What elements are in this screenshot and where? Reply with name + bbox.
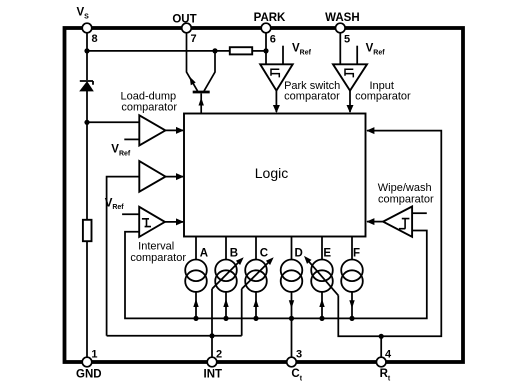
svg-text:F: F: [353, 248, 360, 260]
transistor Q1 output: [187, 31, 216, 114]
wire INT horizontal net: [107, 335, 242, 337]
wire pin 6 riser: [265, 31, 267, 64]
current source A: [185, 237, 207, 322]
svg-text:comparator: comparator: [130, 252, 186, 264]
wire V_S riser upper (pin 8 to zener): [86, 31, 88, 80]
junction dot PARK node: [263, 48, 268, 53]
park switch comparator U5: [260, 46, 293, 113]
wire zener to resistor: [86, 91, 88, 220]
junction dot V_S rail: [84, 48, 89, 53]
svg-text:GND: GND: [76, 368, 102, 380]
svg-text:2: 2: [216, 349, 222, 361]
svg-text:comparator: comparator: [284, 91, 340, 103]
wire C_t sense net (interval input, bus, wipe/wash input): [125, 231, 427, 319]
svg-text:1: 1: [91, 349, 97, 361]
svg-text:Wipe/wash: Wipe/wash: [378, 182, 432, 194]
svg-text:3: 3: [296, 349, 302, 361]
current source F: [341, 237, 363, 322]
svg-text:6: 6: [270, 34, 276, 46]
wire pin 5 riser: [339, 31, 341, 64]
pin 6: [261, 23, 271, 33]
outer package border: [65, 28, 464, 362]
wire pin 4 riser: [380, 336, 382, 358]
svg-text:Logic: Logic: [255, 165, 288, 181]
svg-text:5: 5: [344, 34, 350, 46]
pin 2: [207, 357, 217, 367]
interval comparator U4: [122, 207, 184, 237]
junction dot load-dump tap: [84, 120, 89, 125]
svg-text:A: A: [200, 248, 208, 260]
arrow feedback into logic: [366, 127, 374, 134]
current source C (variable): [242, 237, 274, 336]
wire resistor to pin 1 GND: [86, 241, 88, 358]
input comparator U6: [333, 46, 367, 113]
comparator U3 (middle): [107, 161, 184, 336]
junction dot transistor branch: [212, 48, 217, 53]
svg-text:Interval: Interval: [138, 241, 174, 253]
svg-text:C: C: [260, 248, 268, 260]
pin 8: [82, 23, 92, 33]
current source E (variable): [304, 237, 338, 322]
resistor R (vertical, V_S chain): [83, 220, 92, 241]
svg-text:INT: INT: [204, 368, 223, 380]
wire resistor to PARK node: [252, 50, 266, 52]
wipe/wash comparator U7: [366, 207, 426, 237]
svg-text:comparator: comparator: [378, 194, 434, 206]
wire feedback / R_t net: [338, 131, 441, 337]
svg-text:WASH: WASH: [325, 12, 360, 24]
svg-text:OUT: OUT: [172, 13, 196, 25]
wire V_S rail y=50.9 to pull-up resistor: [87, 50, 230, 52]
svg-text:4: 4: [385, 349, 392, 361]
pin 4: [376, 357, 386, 367]
current source B (variable): [212, 237, 244, 359]
current source D: [281, 237, 303, 359]
svg-text:comparator: comparator: [121, 101, 177, 113]
junction dot INT/pin2: [209, 333, 214, 338]
svg-text:8: 8: [92, 33, 98, 45]
svg-text:comparator: comparator: [355, 91, 411, 103]
pin 5: [336, 23, 346, 33]
svg-text:PARK: PARK: [254, 12, 286, 24]
pin 3: [287, 357, 297, 367]
logic block U1: [184, 114, 366, 237]
svg-text:E: E: [323, 248, 331, 260]
svg-text:B: B: [230, 248, 238, 260]
resistor R2 (PARK pull-up): [230, 47, 252, 54]
junction dot R_t: [379, 334, 384, 339]
svg-text:7: 7: [191, 33, 197, 45]
svg-text:D: D: [295, 248, 303, 260]
pin 1: [82, 357, 92, 367]
pin 7: [182, 23, 192, 33]
load-dump comparator U2: [87, 115, 184, 145]
zener diode D1: [80, 81, 93, 91]
